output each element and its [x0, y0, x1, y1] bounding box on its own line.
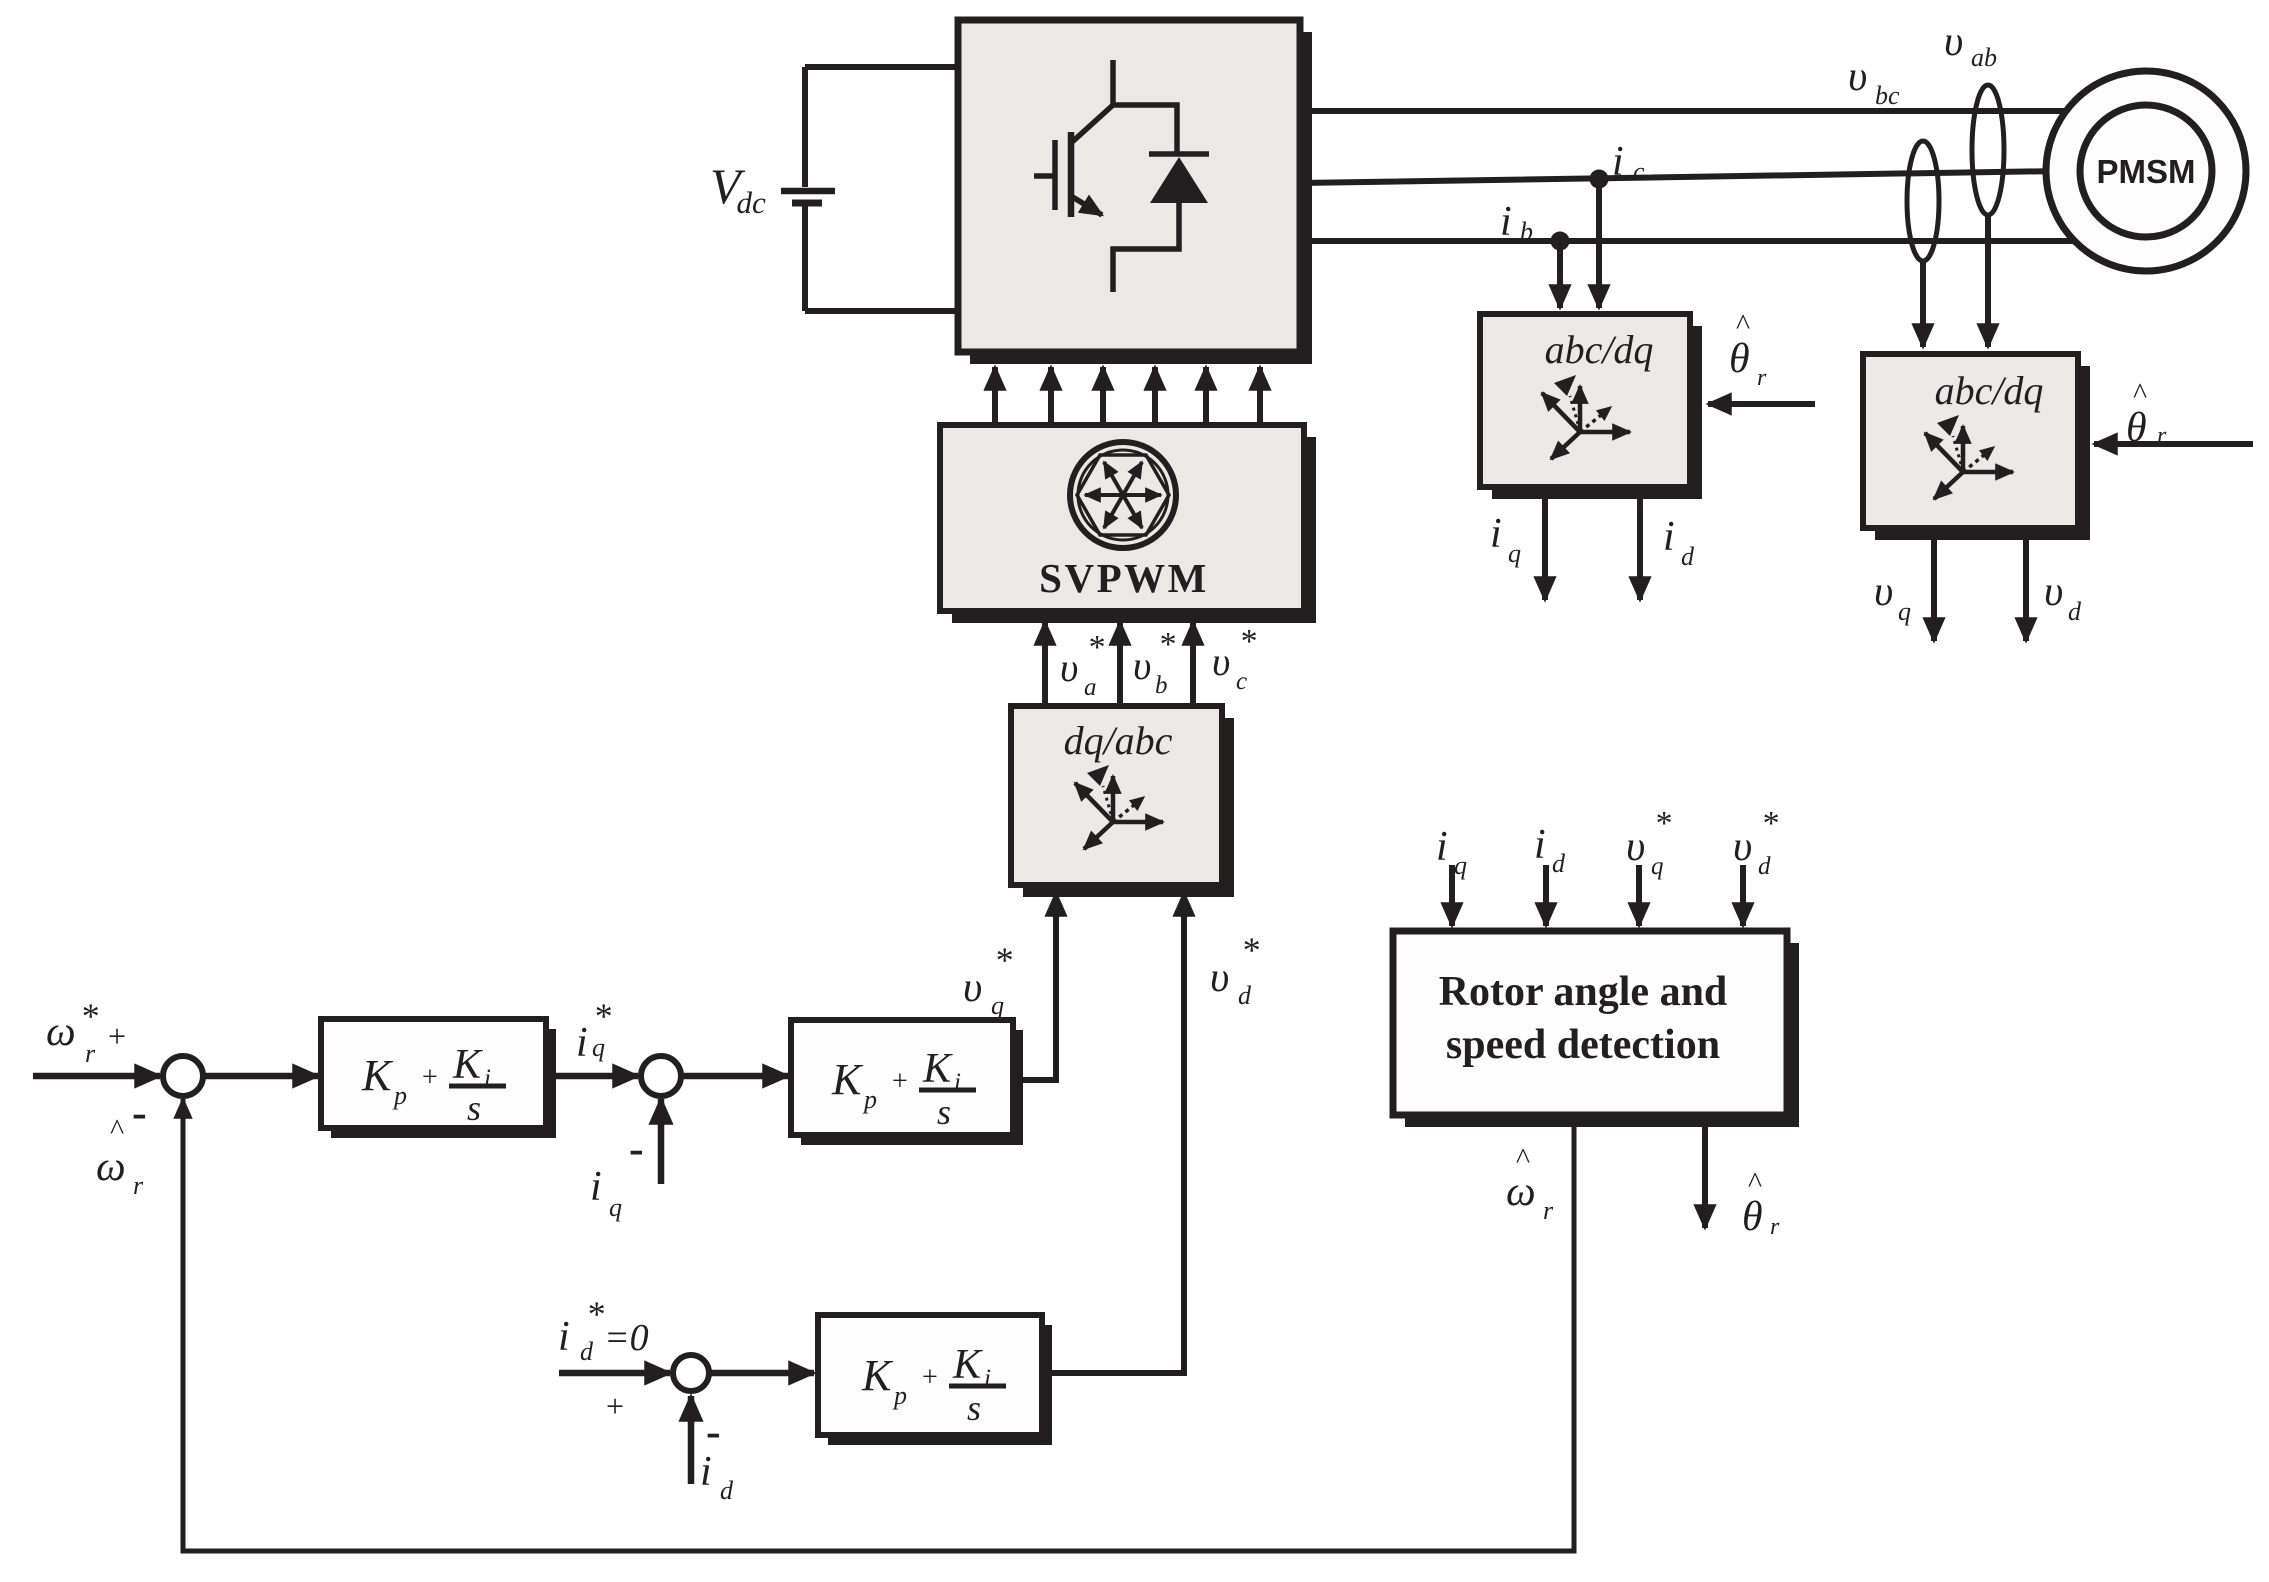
svg-text:θ: θ: [1729, 336, 1750, 382]
svg-text:υ: υ: [1733, 824, 1752, 870]
svg-text:*: *: [586, 1294, 604, 1334]
svg-text:p: p: [392, 1081, 407, 1110]
svg-text:d: d: [1681, 542, 1695, 571]
svg-text:θ: θ: [1742, 1194, 1763, 1240]
svg-text:i: i: [1534, 822, 1546, 868]
svg-text:*: *: [593, 996, 611, 1036]
svg-text:p: p: [862, 1085, 877, 1114]
svg-text:+: +: [422, 1062, 438, 1093]
svg-text:*: *: [1761, 805, 1778, 842]
svg-text:υ: υ: [2044, 569, 2063, 615]
svg-text:d: d: [1758, 853, 1771, 880]
svg-text:i: i: [558, 1314, 570, 1360]
svg-text:υ: υ: [1133, 643, 1151, 688]
svg-text:υ: υ: [1210, 955, 1229, 1001]
svg-text:+: +: [108, 1018, 126, 1054]
svg-text:a: a: [1084, 674, 1097, 701]
svg-text:c: c: [1633, 157, 1645, 186]
svg-text:K: K: [361, 1051, 394, 1100]
svg-text:q: q: [1651, 853, 1664, 880]
svg-text:*: *: [1241, 930, 1259, 970]
svg-text:*: *: [1654, 805, 1671, 842]
svg-text:PMSM: PMSM: [2097, 153, 2196, 190]
svg-text:d: d: [720, 1476, 734, 1505]
svg-text:dq/abc: dq/abc: [1064, 718, 1173, 763]
svg-text:d: d: [1238, 981, 1252, 1010]
svg-text:i: i: [700, 1449, 712, 1495]
svg-text:s: s: [467, 1088, 481, 1128]
svg-text:ω: ω: [46, 1009, 76, 1055]
svg-text:Rotor angle and: Rotor angle and: [1439, 969, 1728, 1015]
svg-text:υ: υ: [1848, 54, 1867, 100]
svg-text:+: +: [922, 1362, 938, 1393]
svg-text:s: s: [967, 1388, 981, 1428]
svg-text:abc/dq: abc/dq: [1935, 368, 2044, 413]
svg-text:-: -: [132, 1088, 147, 1137]
svg-text:SVPWM: SVPWM: [1039, 555, 1209, 601]
svg-text:q: q: [991, 991, 1004, 1020]
svg-text:+: +: [892, 1066, 908, 1097]
svg-text:s: s: [937, 1092, 951, 1132]
svg-text:i: i: [576, 1020, 588, 1066]
svg-text:υ: υ: [963, 965, 982, 1011]
svg-text:r: r: [133, 1171, 144, 1200]
svg-text:speed detection: speed detection: [1446, 1022, 1720, 1068]
svg-text:*: *: [994, 940, 1012, 980]
svg-text:^: ^: [110, 1113, 124, 1146]
svg-text:d: d: [2068, 597, 2082, 626]
svg-text:ab: ab: [1971, 43, 1997, 72]
svg-text:i: i: [1490, 511, 1502, 557]
svg-text:i: i: [590, 1164, 602, 1210]
svg-text:υ: υ: [1060, 645, 1078, 690]
svg-text:+: +: [606, 1388, 624, 1424]
svg-text:b: b: [1520, 217, 1533, 246]
svg-text:υ: υ: [1626, 824, 1645, 870]
svg-text:r: r: [85, 1039, 96, 1068]
svg-text:K: K: [952, 1342, 983, 1388]
svg-text:p: p: [892, 1381, 907, 1410]
svg-text:K: K: [922, 1046, 953, 1092]
svg-text:ω: ω: [96, 1144, 126, 1190]
svg-text:υ: υ: [1212, 639, 1230, 684]
svg-text:d: d: [1552, 849, 1566, 878]
svg-text:r: r: [1757, 365, 1767, 391]
svg-text:-: -: [629, 1124, 644, 1173]
svg-text:i: i: [1663, 514, 1675, 560]
svg-text:*: *: [1239, 623, 1256, 660]
svg-text:q: q: [1898, 597, 1911, 626]
svg-text:*: *: [80, 996, 98, 1036]
svg-text:q: q: [609, 1193, 622, 1222]
svg-text:d: d: [580, 1337, 594, 1366]
svg-text:r: r: [2157, 423, 2167, 449]
svg-text:υ: υ: [1944, 19, 1963, 65]
svg-text:θ: θ: [2126, 405, 2147, 451]
svg-text:K: K: [831, 1055, 864, 1104]
svg-text:*: *: [1087, 629, 1104, 666]
svg-text:q: q: [1508, 539, 1521, 568]
svg-text:i: i: [1612, 139, 1624, 185]
svg-text:υ: υ: [1874, 569, 1893, 615]
svg-text:=0: =0: [604, 1317, 649, 1359]
svg-text:c: c: [1236, 668, 1247, 695]
svg-text:i: i: [1500, 199, 1512, 245]
svg-text:abc/dq: abc/dq: [1545, 327, 1654, 372]
svg-text:i: i: [1436, 824, 1448, 870]
svg-text:bc: bc: [1875, 81, 1900, 110]
svg-text:K: K: [452, 1042, 483, 1088]
svg-text:b: b: [1155, 672, 1168, 699]
svg-text:r: r: [1770, 1214, 1780, 1240]
svg-text:q: q: [1454, 851, 1467, 880]
svg-text:*: *: [1158, 626, 1175, 663]
svg-text:K: K: [861, 1351, 894, 1400]
svg-text:ω: ω: [1506, 1169, 1536, 1215]
svg-text:r: r: [1543, 1196, 1554, 1225]
svg-text:q: q: [592, 1033, 605, 1062]
